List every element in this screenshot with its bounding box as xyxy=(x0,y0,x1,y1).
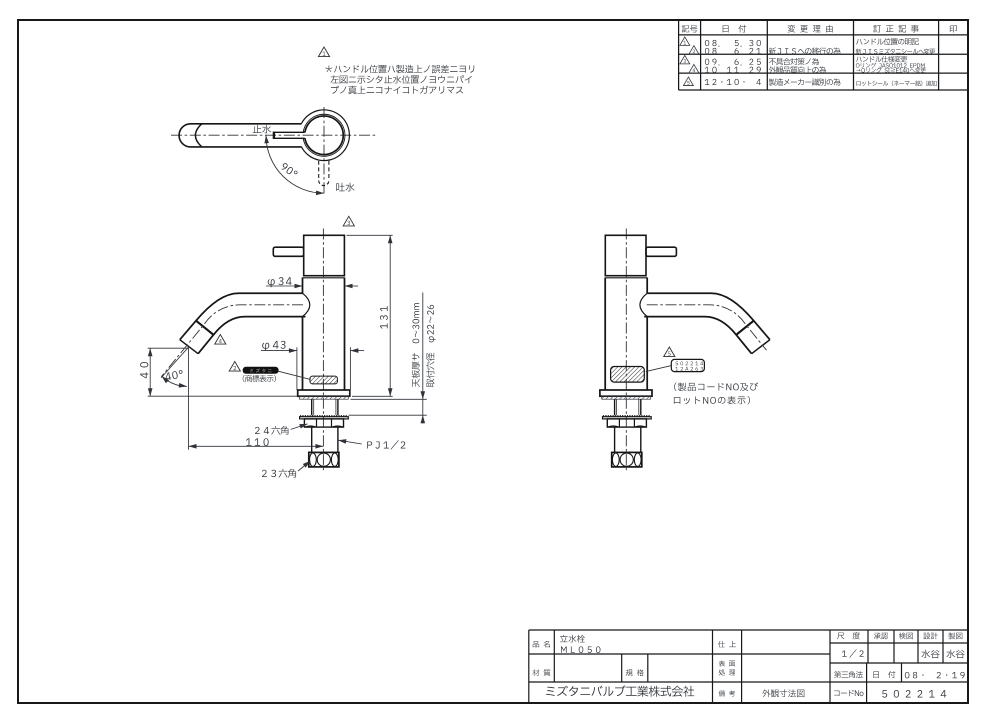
top view: body outer circle xyxy=(301,110,349,161)
front view: hex coupling 23 xyxy=(309,452,339,467)
front view: spout-body intersection curve xyxy=(303,293,310,316)
top view: shisui label xyxy=(253,125,271,133)
right view: base flange xyxy=(600,390,652,396)
countertop reference lines right xyxy=(351,398,427,400)
rotated labels: counter thickness and hole dia xyxy=(412,303,420,387)
right view: handle lever xyxy=(646,247,676,256)
right view: spout tip cap xyxy=(752,340,770,354)
front view: base flange xyxy=(298,390,350,396)
title block values xyxy=(560,635,965,698)
right view: packing band xyxy=(603,415,651,417)
top view: body inner ring xyxy=(303,114,345,156)
revision symbol triangle 4 xyxy=(689,64,699,72)
right view: spout outline xyxy=(647,293,770,340)
right view: countertop hatch xyxy=(602,396,651,399)
right view: supply pipe xyxy=(615,427,641,452)
right view: handle cap xyxy=(605,235,646,275)
revision symbol triangle 1 xyxy=(680,37,690,45)
right view: hex coupling xyxy=(612,452,642,467)
right view: threaded shank xyxy=(615,399,641,415)
revision row 1 text xyxy=(705,38,935,55)
dimension phi43 xyxy=(296,347,298,390)
top view: handle lever outline xyxy=(179,124,301,147)
triangle 3 above front view xyxy=(343,216,354,226)
trademark caption xyxy=(243,375,276,382)
right view: body column xyxy=(605,278,647,391)
front view: label strip on body (hatched) xyxy=(310,376,337,384)
top view: 90 degree label xyxy=(280,162,298,178)
top view: valve stem slot xyxy=(274,132,305,138)
label 23 hex xyxy=(262,469,296,478)
right view: spout joint line xyxy=(736,321,754,335)
front view: lock washer xyxy=(300,417,349,419)
right view: hex nut xyxy=(607,419,646,427)
front view: spout joint line xyxy=(196,321,214,335)
top view: lever end cap arc xyxy=(195,124,201,147)
right view: label strip (hatched) xyxy=(611,367,645,383)
revision symbol triangle 2 xyxy=(689,46,699,54)
trademark black label xyxy=(243,367,278,373)
revision table grid xyxy=(679,20,968,90)
front view: spout outline xyxy=(180,293,303,340)
revision symbol triangle 5 xyxy=(683,77,693,85)
top view: tosui label xyxy=(336,183,354,192)
front view: body column xyxy=(303,278,345,391)
right view: spout centerline xyxy=(647,305,767,350)
triangle 5 right view xyxy=(664,347,675,357)
front view: neck band xyxy=(303,277,345,279)
dimension 131 xyxy=(347,234,393,236)
revision table header text xyxy=(682,25,957,33)
front view: handle cap xyxy=(304,235,345,275)
revision row 3 text xyxy=(705,78,937,86)
title block grid xyxy=(529,630,968,703)
front view: supply pipe xyxy=(312,427,338,452)
front view: hex nut 24 xyxy=(304,419,343,427)
top view: 90 degree arc dimension xyxy=(266,135,324,193)
top view: hidden spout (dashed) xyxy=(319,161,329,181)
spout tip extension line xyxy=(188,348,190,450)
front view: spout centerline xyxy=(161,305,303,377)
title block labels xyxy=(533,632,963,696)
product code caption xyxy=(674,382,758,391)
right view: vertical centerline xyxy=(625,229,627,473)
right view: neck band xyxy=(605,277,647,279)
right view: lock washer xyxy=(603,417,652,419)
front view: countertop hatch xyxy=(300,396,349,399)
revision row 2 text xyxy=(705,56,926,74)
top view: vertical centerline xyxy=(323,107,325,194)
front view: spout tip cap xyxy=(180,340,198,354)
revision symbol triangle 3 xyxy=(680,55,690,63)
top view: horizontal centerline xyxy=(171,134,377,136)
triangle 4 near spout xyxy=(215,335,226,345)
note text xyxy=(325,65,474,95)
front view: handle lever xyxy=(273,247,303,256)
right view: spout-body intersection curve xyxy=(640,293,647,316)
dimension 110 xyxy=(189,445,324,447)
countertop thickness dimension xyxy=(422,293,424,424)
product code box xyxy=(671,359,704,371)
front view: packing band xyxy=(300,415,348,417)
triangle 2 near trademark xyxy=(229,362,240,372)
dimension 40 height xyxy=(148,347,189,349)
front view: vertical centerline xyxy=(322,229,324,473)
note triangle 1 symbol xyxy=(318,47,329,57)
label 24 hex xyxy=(255,426,288,435)
dimension 40 degree angle xyxy=(162,376,187,386)
label PJ1/2 xyxy=(367,440,405,449)
dimension phi34 xyxy=(266,285,303,287)
company name xyxy=(546,685,694,696)
front view: threaded shank xyxy=(312,399,338,415)
